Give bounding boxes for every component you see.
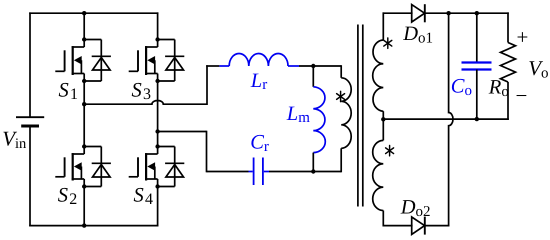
- polarity dot secondary top (asterisk): [384, 38, 392, 48]
- svg-text:Cr: Cr: [250, 132, 269, 155]
- svg-text:−: −: [516, 83, 528, 107]
- wire node A to tank (hops over right leg): [84, 100, 207, 104]
- wire top rail: [29, 12, 158, 14]
- transistor S4 (MOSFET with body diode): [129, 144, 185, 188]
- svg-text:Do2: Do2: [400, 197, 431, 220]
- wire secondary top to Do1: [383, 12, 413, 14]
- battery Vin (source): [16, 117, 44, 126]
- wire left leg middle: [83, 81, 85, 147]
- resistor Ro: [501, 43, 516, 82]
- inductor Lm: [313, 66, 325, 172]
- wire to Lr (black): [206, 65, 219, 67]
- transistor S3 (MOSFET with body diode): [129, 37, 185, 83]
- diode Do1: [412, 4, 425, 22]
- transformer primary winding: [341, 65, 351, 172]
- svg-text:Vo: Vo: [528, 56, 548, 81]
- wire Lr to node C: [299, 65, 341, 67]
- wire bottom rail: [29, 225, 158, 227]
- wire Do2 to riser: [425, 225, 450, 227]
- svg-text:+: +: [517, 25, 529, 49]
- node C (Lr-Lm junction): [311, 64, 315, 68]
- diode Do2: [412, 217, 425, 235]
- wire Ro bottom lead: [507, 82, 509, 120]
- wire secondary bottom to Do2: [383, 225, 413, 227]
- svg-text:Ro: Ro: [488, 77, 509, 100]
- wire right leg upper: [157, 12, 159, 39]
- svg-text:Lr: Lr: [250, 70, 267, 93]
- inductor Lr: [219, 53, 299, 66]
- wire Ro top lead: [507, 12, 509, 42]
- wire center tap to output return: [383, 118, 509, 120]
- svg-text:S1: S1: [59, 80, 78, 104]
- svg-text:Vin: Vin: [2, 127, 27, 153]
- transformer secondary winding bottom: [373, 119, 384, 226]
- svg-text:Do1: Do1: [402, 23, 433, 46]
- node Co bottom: [475, 117, 479, 121]
- wire tank upper-left corner: [206, 65, 208, 105]
- node Do2-riser top: [446, 11, 450, 15]
- node A (S1-S2 midpoint): [82, 102, 86, 106]
- node D (Lm-Cr junction): [311, 169, 315, 173]
- wire battery top lead: [29, 12, 31, 117]
- node Co top: [475, 11, 479, 15]
- capacitor Cr: [249, 158, 270, 186]
- svg-text:Co: Co: [451, 76, 472, 99]
- wire battery bottom lead: [29, 126, 31, 226]
- node center tap: [381, 117, 385, 121]
- wire node B to tank: [158, 131, 207, 133]
- wire left leg upper: [83, 13, 85, 39]
- polarity dot primary (asterisk): [337, 91, 345, 101]
- capacitor Co: [462, 13, 492, 119]
- transformer secondary winding top: [373, 12, 384, 119]
- svg-text:Lm: Lm: [286, 103, 310, 126]
- wire Do2 riser (hops over center-tap wire): [449, 12, 453, 226]
- node top-left junction: [82, 11, 86, 15]
- wire Do1 to output rail: [425, 12, 509, 14]
- node bottom-left junction: [82, 223, 86, 227]
- wire tank lower-left corner: [206, 131, 208, 173]
- wire left leg lower: [83, 187, 85, 226]
- transformer core: [358, 25, 363, 207]
- node B (S3-S4 midpoint): [155, 129, 159, 133]
- svg-text:S2: S2: [58, 185, 77, 209]
- transistor S2 (MOSFET with body diode): [55, 144, 111, 188]
- wire to Cr (black): [207, 171, 249, 173]
- polarity dot secondary bottom (asterisk): [386, 146, 394, 156]
- wire right leg middle: [157, 81, 159, 147]
- wire Cr to primary: [269, 171, 341, 173]
- svg-text:S4: S4: [134, 185, 153, 209]
- wire right leg lower: [157, 187, 159, 227]
- svg-text:S3: S3: [132, 80, 151, 104]
- transistor S1 (MOSFET with body diode): [55, 37, 111, 83]
